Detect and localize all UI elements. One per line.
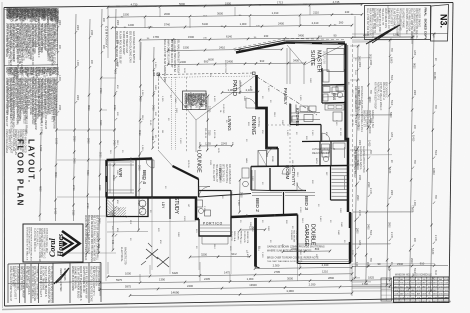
- garage wall window gap: [348, 228, 350, 242]
- patio right thick wall with jog: [257, 75, 279, 148]
- top chain vertical stubs: [107, 8, 109, 58]
- garage door panel lines: [300, 259, 348, 261]
- house outer wall: right: [346, 44, 349, 213]
- bath clutter: [322, 150, 329, 157]
- hall partitions extra: [199, 190, 271, 197]
- title block horizontal divider: [39, 282, 102, 283]
- patio dashed roof outline: [158, 73, 254, 75]
- garage internal line: [298, 243, 349, 245]
- garage right wall: [349, 212, 352, 264]
- family meals divider dashes: [289, 125, 291, 165]
- laundry hatch (tiled area): [107, 207, 116, 216]
- north arrow-ish marks near crosses: [141, 243, 152, 265]
- master suite robe lines: [287, 48, 290, 84]
- divider line under notes block 1: [5, 64, 59, 67]
- ens clutter: [332, 87, 338, 94]
- right bottom horizontal chain: [352, 265, 448, 266]
- boundary dividing wall below house: [254, 218, 257, 267]
- roof hips master suite: [287, 45, 304, 65]
- right dimension chains: [355, 46, 358, 278]
- portico outline: [199, 217, 231, 236]
- eave dashed right side: [352, 44, 354, 211]
- patio posts: [157, 73, 160, 76]
- left wing west wall: [105, 160, 108, 198]
- hall wall below dining: [250, 167, 252, 191]
- linen cupboard: [258, 151, 267, 167]
- stub lines to left chains: [100, 77, 116, 79]
- house outer wall: top: [286, 43, 345, 44]
- dining / family dividing walls: [277, 148, 279, 167]
- ens / wir walls right wing: [322, 68, 345, 103]
- title block cells: [8, 263, 101, 265]
- patio internal dimension chain: [168, 63, 305, 65]
- left wing north wall: [107, 159, 153, 161]
- entry hall walls: [199, 191, 231, 218]
- small chain at portico front: [190, 255, 250, 258]
- right chain horizontal stubs: [350, 45, 360, 47]
- kitchen walls: [290, 104, 321, 125]
- bottom chain stubs: [107, 262, 109, 274]
- kitchen extra clutter: [292, 116, 298, 122]
- roof hip diagonals over patio: [159, 75, 197, 121]
- ens fixtures: [323, 87, 330, 93]
- stub lines to bottom chains: [198, 236, 200, 270]
- bed2/bed3 divider: [283, 192, 285, 215]
- garage door line: [298, 263, 351, 265]
- windows on right wall: [343, 55, 345, 69]
- wc fixtures near entry: [242, 168, 249, 178]
- fifth short top chain: [168, 49, 282, 50]
- laundry tubs: [139, 200, 146, 207]
- portico steps: [199, 225, 231, 232]
- activity room walls: [270, 168, 306, 191]
- bottom wall garage to portico: [231, 215, 298, 218]
- bath walls near stairs: [320, 142, 331, 166]
- top-right approval note box: [365, 6, 431, 40]
- master bed rectangle: [327, 49, 344, 72]
- hall robes lines: [251, 170, 253, 190]
- entry wall: [170, 179, 199, 219]
- windows on left wing wall: [105, 166, 107, 176]
- stair well walls: [331, 166, 348, 200]
- right side ladder stubs: [359, 114, 392, 116]
- path lines below left wing: [107, 221, 196, 222]
- bottom dimension chains: [255, 267, 352, 268]
- wir shelves: [108, 162, 134, 165]
- small legend table: [381, 278, 392, 301]
- N3 sheet number box: [431, 5, 449, 42]
- entry path below portico: [202, 236, 228, 244]
- logo chevrons: [62, 231, 80, 256]
- lounge diagonal wall: [173, 166, 199, 179]
- stub lines to right chains: [350, 79, 360, 81]
- robes bed2/bed3: [252, 193, 282, 196]
- left dimension chains: [40, 133, 41, 221]
- approval signature scribble: [366, 25, 400, 44]
- bath fixtures near stairs: [322, 144, 330, 153]
- window schedule table bottom-right: [394, 277, 450, 303]
- sheet border frame: [4, 3, 453, 8]
- wir extra: [109, 163, 111, 193]
- builder logo box (Coral Homes): [23, 224, 83, 262]
- laundry extension below left wing: [107, 198, 149, 217]
- house outer wall: top-left diagonal: [236, 43, 286, 53]
- powder room fixtures: [197, 200, 203, 207]
- stairs treads: [332, 168, 348, 170]
- patio note box: [183, 91, 207, 110]
- signature scribble in title block: [54, 268, 69, 284]
- patio extra dotted verticals: [171, 77, 173, 150]
- left wing room dividers: [136, 159, 152, 198]
- kitchen bench + sink: [291, 104, 320, 123]
- bottom wall portico to left wing: [107, 198, 200, 220]
- windows on top wall: [295, 42, 312, 44]
- roof valley dash-dot diagonal: [257, 77, 318, 116]
- top dimension chain lines: [108, 4, 362, 7]
- top border double line hint at left: [4, 8, 57, 11]
- garage left wall: [297, 215, 299, 264]
- driveway cross markers: [146, 249, 169, 267]
- misc internal dims: [222, 91, 258, 93]
- door swing arcs: [199, 187, 210, 198]
- N3 box sub-compartment: [431, 33, 448, 35]
